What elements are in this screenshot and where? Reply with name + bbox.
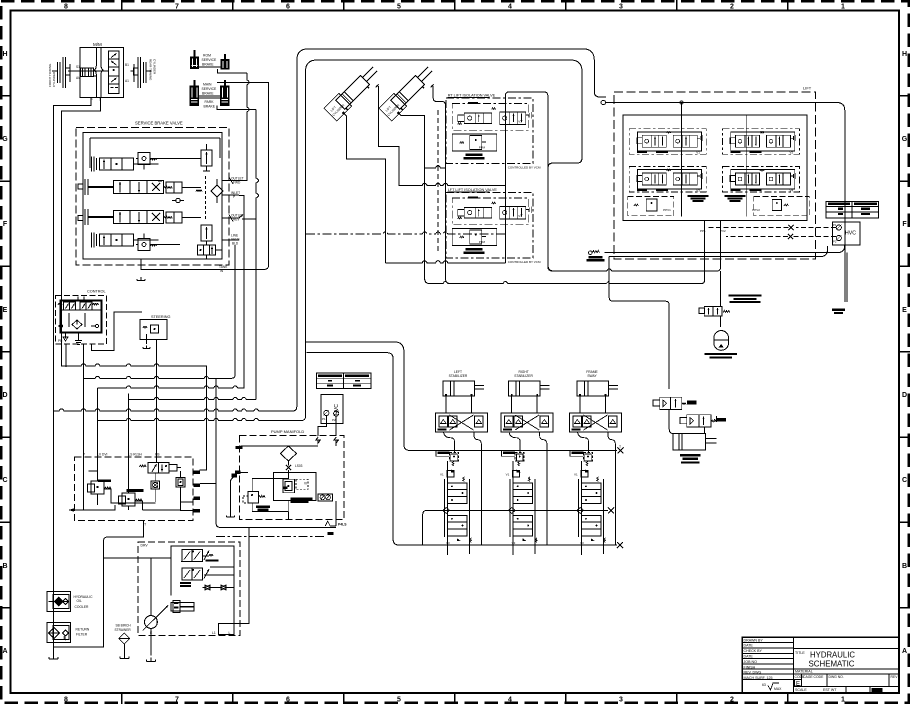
svg-text:63: 63 <box>762 683 766 687</box>
svg-text:LFT LIFT ISOLATION VALVE: LFT LIFT ISOLATION VALVE <box>448 188 498 192</box>
control dashed box <box>56 296 107 345</box>
svg-text:C: C <box>2 477 7 484</box>
svg-text:V2: V2 <box>790 151 794 155</box>
right solenoid <box>176 478 185 488</box>
ELECTRONIC DISP CONT label <box>291 498 313 501</box>
application table 1 <box>826 201 878 218</box>
svg-text:G: G <box>2 136 8 143</box>
svg-text:V1: V1 <box>518 120 522 124</box>
mid small valve <box>151 481 160 489</box>
svg-text:E: E <box>902 307 907 314</box>
svg-text:PPV1: PPV1 <box>663 208 671 212</box>
svg-text:P1: P1 <box>833 223 837 227</box>
internal connection lines <box>84 457 157 510</box>
svg-text:7: 7 <box>175 4 179 11</box>
lift inner solid box <box>623 115 807 221</box>
svg-text:B: B <box>902 563 907 570</box>
brake spool 4 <box>100 234 134 246</box>
svg-text:PR: PR <box>58 339 63 343</box>
svg-text:1: 1 <box>841 4 845 11</box>
control bottom ports <box>63 333 68 342</box>
svg-text:D: D <box>902 392 907 399</box>
cyl1 rod wire <box>376 85 379 88</box>
inlet filter diamond <box>211 185 223 197</box>
port stub with tank mid <box>232 474 238 478</box>
svg-text:L1: L1 <box>212 631 216 635</box>
supply line A west y411 <box>54 61 297 412</box>
lift spool block V4 <box>723 167 800 193</box>
svg-text:SCHEMATIC: SCHEMATIC <box>809 659 855 669</box>
svg-text:CYLINDER: CYLINDER <box>52 71 56 87</box>
ride control solenoid valve <box>699 308 705 314</box>
wire from lift box down to locks <box>609 257 669 389</box>
VLT COMP FRAME <box>572 451 584 453</box>
svg-text:SWAY: SWAY <box>587 374 597 378</box>
svg-text:EST WT: EST WT <box>823 688 837 692</box>
bottom rail <box>307 353 618 545</box>
LS wire from SBV down + west along y378.5 <box>216 245 235 378</box>
lift spool block V1 <box>629 129 706 155</box>
bundle H2 y378.5 <box>84 376 217 378</box>
sbv bottom right valve <box>201 225 212 241</box>
svg-text:5: 5 <box>397 4 401 11</box>
wire MAIN brake to tank return <box>217 83 269 270</box>
svg-text:OIL: OIL <box>77 599 82 603</box>
lock cylinder <box>673 434 706 450</box>
svg-text:BLD: BLD <box>232 242 239 246</box>
accumulator <box>714 331 729 351</box>
wire control down to valve bank P <box>83 344 85 457</box>
svg-text:REAR TOWING: REAR TOWING <box>149 59 153 81</box>
junction circle node <box>601 100 605 104</box>
towing control valve body <box>80 48 124 98</box>
VLT COMP LEFT <box>438 451 450 453</box>
svg-text:7: 7 <box>175 697 179 704</box>
return filter <box>47 623 71 643</box>
svg-text:REV: REV <box>233 218 240 222</box>
svg-text:VI: VI <box>304 482 307 486</box>
svg-text:LV DVI: LV DVI <box>98 452 108 456</box>
svg-text:B: B <box>2 563 7 570</box>
svg-text:STRAINER: STRAINER <box>115 628 132 632</box>
lock valve right <box>680 418 687 424</box>
lift cylinder 1 (angled 45 deg) <box>324 63 382 121</box>
wire y271 from supply B to lift box <box>552 220 720 271</box>
drive wires <box>151 558 171 655</box>
supply line B west y420.5 <box>98 72 306 421</box>
supply line into manifold <box>241 445 319 447</box>
title block <box>742 637 899 693</box>
svg-text:STABILIZER: STABILIZER <box>514 374 533 378</box>
svg-text:SERVICE: SERVICE <box>202 58 218 62</box>
svg-text:6: 6 <box>286 697 290 704</box>
pilot valve small 2 <box>138 239 150 251</box>
svg-text:PFM: PFM <box>479 145 486 149</box>
cooler stack wire + tank <box>53 592 55 659</box>
svg-text:JOB NO: JOB NO <box>744 660 758 664</box>
service brake valve dashed box <box>76 128 229 266</box>
tank line bottom <box>141 259 221 270</box>
control left valve cell <box>64 302 76 310</box>
small check circles mid <box>176 198 180 202</box>
svg-text:T: T <box>619 445 621 449</box>
svg-text:F: F <box>3 221 8 228</box>
wires to lock cylinder <box>669 389 704 434</box>
lift spool block V3 <box>629 167 706 193</box>
lock valve stack FRAME <box>582 516 602 537</box>
pilot valve small 1 <box>138 153 150 165</box>
PWM1 solenoid <box>628 196 674 215</box>
wire control to steering feed <box>92 312 143 351</box>
supply line B top run <box>306 60 583 271</box>
svg-text:CYLINDER: CYLINDER <box>153 59 157 75</box>
bundle H4 y399.5 <box>129 394 257 400</box>
MAIN service brake actuator left <box>190 86 199 106</box>
svg-text:MACH SURF. 125: MACH SURF. 125 <box>744 676 773 680</box>
routing box / wire loop around iso valves <box>505 92 556 271</box>
svg-text:MAIN: MAIN <box>203 83 212 87</box>
svg-text:2: 2 <box>730 4 734 11</box>
lift box internal verticals <box>682 103 747 217</box>
svg-text:M/M: M/M <box>93 42 102 47</box>
svg-text:A: A <box>2 648 7 655</box>
wire from lift box down to ride valve <box>720 271 722 327</box>
wire from ROM brakes to OUTLET FWD <box>218 69 247 73</box>
pump manifold dashed box <box>240 436 345 520</box>
valve bank dashed box <box>75 457 194 521</box>
svg-text:L: L <box>229 631 231 635</box>
svg-text:2: 2 <box>730 697 734 704</box>
svg-text:V4: V4 <box>790 189 794 193</box>
svg-text:DRV: DRV <box>141 544 149 548</box>
inner solid box <box>83 133 222 260</box>
pilot dash-dot y234 <box>306 232 505 234</box>
svg-text:4: 4 <box>508 4 512 11</box>
svg-text:RETURN: RETURN <box>76 628 90 632</box>
PWM2 solenoid <box>754 196 809 215</box>
ports right <box>222 177 239 184</box>
bundle H1 y366 <box>62 352 207 470</box>
svg-text:F: F <box>902 221 907 228</box>
LS dash-dot pilot line <box>216 536 326 538</box>
wire lift right side down <box>615 103 845 303</box>
svg-text:FINISH: FINISH <box>744 665 756 669</box>
ROM service brake actuator right <box>221 60 229 70</box>
svg-text:MATERIAL: MATERIAL <box>795 670 813 674</box>
drive valve 2 <box>182 568 203 580</box>
svg-text:SERVICE: SERVICE <box>202 87 218 91</box>
wire park brake to OUTLET REV vertical <box>217 106 256 110</box>
svg-text:S1: S1 <box>76 65 80 69</box>
svg-text:REV: REV <box>891 675 899 679</box>
svg-text:BRAKE: BRAKE <box>202 92 214 96</box>
svg-text:8: 8 <box>64 4 68 11</box>
servo cylinder <box>171 603 194 612</box>
relief valve 2 <box>122 493 135 506</box>
lock valve stack LEFT <box>448 516 468 537</box>
test point zigzag on bottom wire <box>592 251 599 253</box>
ROM service brake actuator left <box>191 57 199 69</box>
svg-text:HVC: HVC <box>845 231 856 237</box>
svg-text:STEERING: STEERING <box>151 315 170 319</box>
return line from valve bank <box>54 627 104 647</box>
holding valve stack RIGHT <box>510 461 513 555</box>
svg-text:5: 5 <box>397 697 401 704</box>
svg-text:E: E <box>3 307 8 314</box>
main valve <box>283 479 295 493</box>
border zone ticks <box>121 0 123 11</box>
svg-text:E: E <box>796 682 800 688</box>
lock valve left <box>653 400 660 406</box>
MAIN service brake actuator right <box>221 86 230 106</box>
svg-text:LIFT: LIFT <box>803 86 812 91</box>
svg-text:PPV2: PPV2 <box>752 208 760 212</box>
filter diamond <box>280 446 296 461</box>
svg-text:LS03: LS03 <box>295 464 303 468</box>
check valves <box>205 585 210 590</box>
svg-text:PP1: PP1 <box>700 229 706 233</box>
dashed control lines to PWMs <box>796 227 836 229</box>
svg-text:P2: P2 <box>833 240 837 244</box>
wires HVC to manifold <box>318 416 326 436</box>
svg-text:V1: V1 <box>696 151 700 155</box>
svg-text:B1: B1 <box>125 63 129 67</box>
svg-text:CHECK BY: CHECK BY <box>744 649 763 653</box>
svg-text:PB: PB <box>155 452 160 456</box>
bundle H3 y388 <box>98 196 244 388</box>
svg-text:DRAWN BY: DRAWN BY <box>744 638 764 642</box>
svg-text:CONTROLLED BY VCM: CONTROLLED BY VCM <box>508 166 541 170</box>
stub y167.8 <box>425 166 446 168</box>
control inner box <box>61 301 102 333</box>
drive valve 1 <box>182 550 203 562</box>
left small relief <box>248 492 259 504</box>
svg-text:D: D <box>2 392 7 399</box>
svg-text:DATE: DATE <box>744 644 754 648</box>
center horizontal port line <box>68 70 109 72</box>
svg-text:3: 3 <box>619 4 623 11</box>
svg-text:V1: V1 <box>506 473 510 477</box>
svg-text:V1: V1 <box>574 473 578 477</box>
tank-in line ext <box>221 268 265 270</box>
svg-text:A1: A1 <box>125 79 129 83</box>
svg-text:A: A <box>902 648 907 655</box>
svg-text:COOLER: COOLER <box>75 605 90 609</box>
relief valve 1 <box>91 481 104 494</box>
application table 2 <box>317 373 371 388</box>
svg-text:1: 1 <box>841 697 845 704</box>
svg-text:P1: P1 <box>322 417 326 421</box>
svg-text:RT LIFT ISOLATION VALVE: RT LIFT ISOLATION VALVE <box>448 94 496 98</box>
svg-text:PUMP MANIFOLD: PUMP MANIFOLD <box>271 429 304 434</box>
HVC box (pump) <box>321 394 343 423</box>
svg-text:FILTER: FILTER <box>76 633 88 637</box>
pilot dashed vertical x438 <box>437 110 439 253</box>
svg-text:P: P <box>83 453 85 457</box>
long line y283.7 to lift valve <box>430 220 704 283</box>
svg-text:CONTROL: CONTROL <box>87 290 106 294</box>
svg-text:PFM: PFM <box>479 240 486 244</box>
brake spool 3 <box>114 211 164 224</box>
valve right section <box>109 51 120 94</box>
valve left section <box>81 68 94 76</box>
surface finish symbol <box>768 683 779 690</box>
brake spool 2 <box>114 181 164 194</box>
right port labels <box>194 471 201 474</box>
svg-text:H: H <box>902 51 907 58</box>
svg-text:FWD: FWD <box>233 181 241 185</box>
svg-text:V1: V1 <box>440 473 444 477</box>
L1 box <box>219 624 235 635</box>
HVC controller box <box>832 222 860 245</box>
svg-text:T: T <box>144 523 147 527</box>
svg-text:8: 8 <box>64 697 68 704</box>
rail 1 (T return) with X terminator <box>306 342 617 451</box>
holding valve stack LEFT <box>445 461 448 555</box>
rail 2 <box>423 511 608 515</box>
svg-text:CONTROLLED BY VCM: CONTROLLED BY VCM <box>508 260 541 264</box>
rear towing cylinder <box>131 57 152 88</box>
wires inside manifold <box>252 479 288 512</box>
inner solid box <box>274 473 317 501</box>
vertical dashed pilot line <box>205 176 207 221</box>
bottom right small spool <box>198 245 216 255</box>
sbv top right valve <box>201 150 212 166</box>
LIFT dashed box <box>614 92 816 259</box>
cyl1 base wire <box>342 112 345 115</box>
svg-text:LS RLSH: LS RLSH <box>129 452 143 456</box>
VLT COMP RIGHT <box>503 451 515 453</box>
svg-text:BRAKE: BRAKE <box>202 63 214 67</box>
holding valve stack FRAME <box>579 461 582 555</box>
svg-text:P2: P2 <box>332 418 336 422</box>
OUTLET REV east stub <box>239 215 256 220</box>
svg-text:PARK: PARK <box>205 100 215 104</box>
lock valve stack RIGHT <box>513 516 533 537</box>
svg-text:6: 6 <box>286 4 290 11</box>
right gauge box <box>318 494 333 501</box>
svg-text:4: 4 <box>508 697 512 704</box>
svg-text:P: P <box>233 195 235 199</box>
svg-text:V1: V1 <box>518 214 522 218</box>
svg-text:ROM: ROM <box>203 54 211 58</box>
svg-text:C: C <box>902 477 907 484</box>
hydraulic oil cooler <box>47 592 71 612</box>
svg-text:H: H <box>2 51 7 58</box>
supply line A top run <box>297 49 606 97</box>
svg-text:V3: V3 <box>696 189 700 193</box>
svg-text:SCALE: SCALE <box>795 688 807 692</box>
svg-text:REV. DWG: REV. DWG <box>744 671 762 675</box>
svg-text:MAX: MAX <box>774 687 782 691</box>
lift cylinder 2 (angled 45 deg) <box>379 63 437 121</box>
svg-text:TITLE: TITLE <box>795 651 805 655</box>
drive dashed box <box>138 542 240 636</box>
x216 down to y527 then east <box>216 379 336 528</box>
svg-text:3: 3 <box>619 697 623 704</box>
pump circle <box>145 616 158 629</box>
svg-text:BRAKE: BRAKE <box>204 105 216 109</box>
cyl2 rod wire <box>431 85 434 88</box>
left inlet arrow <box>69 509 85 511</box>
lift spool block V2 <box>723 129 800 155</box>
svg-text:STABILIZER: STABILIZER <box>449 374 468 378</box>
svg-text:SERVICE BRAKE VALVE: SERVICE BRAKE VALVE <box>135 121 183 126</box>
svg-text:P4LS: P4LS <box>338 523 347 527</box>
branch down to L1 box <box>234 527 249 623</box>
pilot S-lines through body <box>94 48 96 98</box>
sbv check small <box>158 180 162 182</box>
svg-text:G: G <box>902 136 908 143</box>
drive inner box <box>171 546 234 635</box>
svg-text:DWG NO.: DWG NO. <box>829 675 844 679</box>
svg-text:CAGE CODE: CAGE CODE <box>803 675 824 679</box>
control diamond <box>72 320 82 329</box>
cyl2 base wire <box>397 112 400 115</box>
pb valve top <box>140 465 147 467</box>
brake spool 1 <box>100 158 134 170</box>
front towing cylinder <box>52 57 70 88</box>
svg-text:PV2: PV2 <box>720 229 726 233</box>
wire steering down to valve bank PB <box>156 340 158 458</box>
sbv internal connectors <box>134 159 202 165</box>
return line west along lift box bottom <box>605 245 845 253</box>
valve bank feed verticals <box>97 388 99 457</box>
control right valve cell <box>80 302 92 310</box>
svg-text:DATE: DATE <box>744 655 754 659</box>
